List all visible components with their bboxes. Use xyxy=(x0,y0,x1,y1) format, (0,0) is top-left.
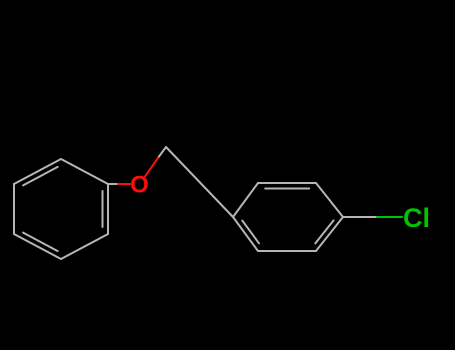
ring 2 double bond bottom-left edge xyxy=(242,221,259,244)
bond ring1 to O, carbon half (gray) xyxy=(108,183,118,185)
ring 2 double bond top edge xyxy=(265,188,309,190)
ring 2 double bond bottom-right edge xyxy=(315,220,333,243)
ring 1 double bond B-C (right edge) xyxy=(102,191,104,227)
bond ring2 to Cl, carbon half (gray) xyxy=(343,216,377,218)
bond ring2 to Cl, chlorine half (green) xyxy=(377,216,402,218)
svg-text:O: O xyxy=(130,172,149,199)
bond O to C1, carbon half (gray) xyxy=(159,147,166,157)
svg-text:Cl: Cl xyxy=(403,203,430,233)
benzene ring 2 (chlorophenyl) outer edges xyxy=(233,183,343,251)
bond ring1 to O, oxygen half (red) xyxy=(118,183,130,185)
ring 1 double bond D-E (bottom-left edge) xyxy=(23,233,58,252)
benzene ring 1 (phenyl, left) outer edges xyxy=(14,159,108,259)
chain bond C1 to ring 2 (straight diagonal) xyxy=(166,147,233,217)
bond O to C1, oxygen half (red) xyxy=(145,157,159,177)
ring 1 double bond F-A (top-left edge) xyxy=(23,167,58,186)
